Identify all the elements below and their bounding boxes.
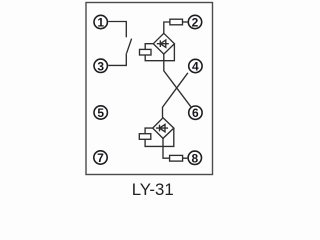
svg-text:2: 2: [192, 16, 199, 30]
svg-text:3: 3: [97, 59, 104, 73]
terminal 1: [94, 15, 107, 28]
diode symbol in V1: [157, 40, 169, 47]
wire coil2 top lead: [145, 128, 153, 134]
coil KA1: [140, 49, 152, 55]
terminal 3: [94, 59, 107, 72]
terminal 2: [188, 15, 201, 28]
relay case outline: [86, 3, 213, 175]
rectifier bridge V1: [153, 33, 174, 54]
terminal 7: [94, 151, 107, 164]
svg-text:4: 4: [192, 60, 199, 74]
wire coil1 top lead: [145, 44, 153, 50]
diode symbol in V2: [156, 124, 168, 131]
wire coil2 bottom lead: [145, 128, 174, 146]
wire coil1 bottom lead: [145, 44, 174, 61]
switch blade K1: [127, 39, 132, 54]
wire terminal 4 to bridge2 top: [163, 73, 188, 118]
svg-text:7: 7: [97, 151, 104, 165]
terminal 5: [94, 106, 107, 119]
wire bridge1 top to resistor R1: [164, 22, 170, 33]
svg-text:6: 6: [192, 106, 199, 120]
resistor R2: [170, 155, 183, 161]
svg-text:1: 1: [97, 16, 104, 30]
rectifier bridge V2: [153, 118, 174, 139]
wire blade to terminal 3: [108, 53, 126, 65]
resistor R1: [170, 19, 183, 25]
svg-text:LY-31: LY-31: [132, 180, 174, 199]
wire terminal 1 to fixed contact: [108, 22, 126, 38]
svg-text:5: 5: [97, 106, 104, 120]
wire bridge2 bottom to resistor R2: [163, 138, 170, 158]
wire R2 to terminal 8: [183, 157, 188, 159]
wire bridge1 bottom to terminal 6: [164, 54, 191, 107]
terminal 4: [189, 59, 202, 72]
coil KA2: [139, 134, 151, 140]
wire R1 to terminal 2: [183, 21, 188, 23]
svg-text:8: 8: [191, 151, 198, 165]
terminal 6: [189, 106, 202, 119]
terminal 8: [188, 151, 201, 164]
